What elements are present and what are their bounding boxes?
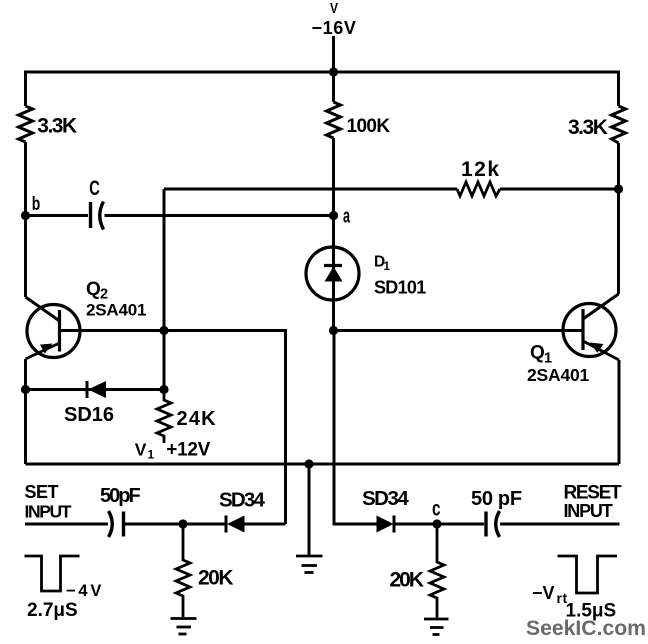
wire 50pF to SD34 left — [124, 523, 227, 526]
wire center column upper — [332, 72, 335, 102]
wire SD16 line — [26, 388, 165, 391]
svg-text:2SA401: 2SA401 — [86, 301, 146, 320]
svg-text:b: b — [32, 194, 41, 215]
svg-text:SD34: SD34 — [362, 487, 409, 510]
transistor Q1 emitter line — [583, 341, 619, 360]
diode SD34 left triangle — [227, 516, 245, 533]
svg-text:12k: 12k — [461, 158, 501, 181]
capacitor 50pF right curved plate — [496, 511, 500, 537]
svg-text:−16V: −16V — [312, 18, 357, 38]
svg-text:50 pF: 50 pF — [471, 488, 522, 510]
svg-text:1: 1 — [148, 448, 155, 462]
svg-text:24K: 24K — [177, 408, 217, 430]
wire right column middle — [617, 143, 620, 294]
resistor R6 20K left — [176, 524, 190, 617]
diode SD34 right bar — [393, 516, 396, 533]
svg-text:SD101: SD101 — [374, 278, 426, 298]
capacitor C curved plate — [100, 202, 104, 230]
wire V supply stub — [332, 36, 335, 72]
svg-text:−4V: −4V — [66, 582, 104, 600]
node SD16 right junction — [159, 385, 168, 394]
diode SD16 bar — [86, 381, 89, 398]
svg-text:SeekIC.com: SeekIC.com — [526, 616, 646, 640]
resistor R1 3.3K left — [19, 106, 33, 142]
node SD16 left junction — [21, 385, 30, 394]
transistor Q1 collector line — [583, 294, 619, 319]
transistor Q1 emitter arrow — [590, 343, 604, 353]
node V junction dot — [329, 67, 338, 76]
svg-text:SD16: SD16 — [64, 404, 114, 426]
wire left column upper — [24, 71, 27, 107]
ground main symbol — [296, 556, 323, 573]
svg-text:2SA401: 2SA401 — [527, 365, 590, 385]
wire SD34 left to corner — [245, 523, 286, 526]
svg-text:50pF: 50pF — [100, 485, 140, 507]
diode SD34 left bar — [225, 516, 228, 533]
wire C to node a — [105, 214, 334, 217]
svg-text:C: C — [89, 177, 100, 200]
node c — [432, 519, 441, 528]
diode D1 triangle — [325, 267, 343, 282]
wire RESET input line — [500, 523, 620, 526]
transistor Q1 circle — [563, 304, 616, 357]
svg-text:a: a — [343, 206, 351, 228]
wire right column lower — [618, 360, 621, 464]
resistor R2 100K — [327, 102, 341, 138]
svg-text:+12V: +12V — [166, 440, 210, 461]
svg-text:−V: −V — [532, 583, 555, 603]
node a — [329, 211, 338, 220]
svg-text:3.3K: 3.3K — [37, 114, 77, 137]
waveform RESET pulse — [558, 556, 618, 593]
svg-text:V: V — [135, 440, 147, 460]
wire SET input line — [25, 523, 108, 526]
svg-text:INPUT: INPUT — [564, 501, 613, 521]
wire ground stem — [308, 464, 311, 556]
resistor R4 3.3K right — [612, 106, 626, 143]
diode SD34 right triangle — [377, 516, 394, 533]
svg-text:Q: Q — [86, 279, 101, 300]
transistor Q2 base bar — [58, 310, 61, 352]
wire left column lower — [24, 359, 27, 464]
wire center column through D1 — [332, 138, 335, 331]
node Q2 base junction — [159, 326, 168, 335]
diode D1 circle — [306, 247, 359, 300]
transistor Q2 circle — [27, 305, 80, 358]
resistor R7 20K right — [430, 524, 444, 618]
wire 12k line horizontal — [164, 188, 457, 191]
transistor Q1 base bar — [581, 309, 584, 350]
capacitor 50pF left curved plate — [109, 511, 113, 537]
waveform SET pulse — [25, 556, 80, 591]
wire top rail — [26, 71, 619, 74]
diode SD16 triangle — [88, 381, 106, 398]
wire center column lower — [334, 331, 377, 525]
wire SD34 right to node c — [394, 523, 484, 526]
svg-text:V: V — [330, 0, 338, 17]
svg-text:2.7μS: 2.7μS — [27, 600, 78, 621]
transistor Q2 collector line — [26, 297, 60, 321]
wire 12k to right column — [500, 188, 619, 191]
svg-text:SET: SET — [25, 482, 59, 502]
svg-text:20K: 20K — [390, 569, 424, 592]
wire bottom rail — [26, 463, 620, 466]
capacitor 50pF left straight plate — [122, 512, 125, 537]
ground left symbol — [171, 619, 197, 635]
node b — [21, 211, 30, 220]
wire right column upper — [617, 71, 620, 107]
svg-text:Q: Q — [530, 343, 545, 364]
wire Q2 base to right corner — [60, 331, 286, 525]
svg-text:INPUT: INPUT — [25, 502, 72, 522]
svg-text:100K: 100K — [347, 116, 391, 137]
wire b to C — [26, 214, 89, 217]
transistor Q2 emitter arrow — [40, 344, 53, 354]
capacitor C straight plate — [89, 202, 92, 228]
resistor R3 12k — [457, 182, 500, 196]
resistor R5 24K — [157, 390, 171, 444]
wire left column b segment — [24, 142, 27, 297]
wire x164 vertical — [163, 189, 166, 390]
capacitor 50pF right straight plate — [484, 512, 487, 537]
ground right symbol — [424, 619, 449, 635]
transistor Q2 emitter line — [26, 343, 60, 359]
node ground junction dot — [304, 459, 313, 468]
svg-text:1: 1 — [384, 261, 391, 273]
node right junction dot — [614, 184, 623, 193]
diode D1 cathode bar — [324, 264, 342, 267]
svg-text:20K: 20K — [198, 567, 233, 590]
svg-text:3.3K: 3.3K — [568, 116, 608, 139]
svg-text:c: c — [432, 498, 441, 521]
wire Q1 base line — [334, 329, 584, 332]
svg-text:SD34: SD34 — [219, 489, 265, 512]
node D1 bottom junction — [329, 326, 338, 335]
node SET junction dot — [178, 519, 187, 528]
